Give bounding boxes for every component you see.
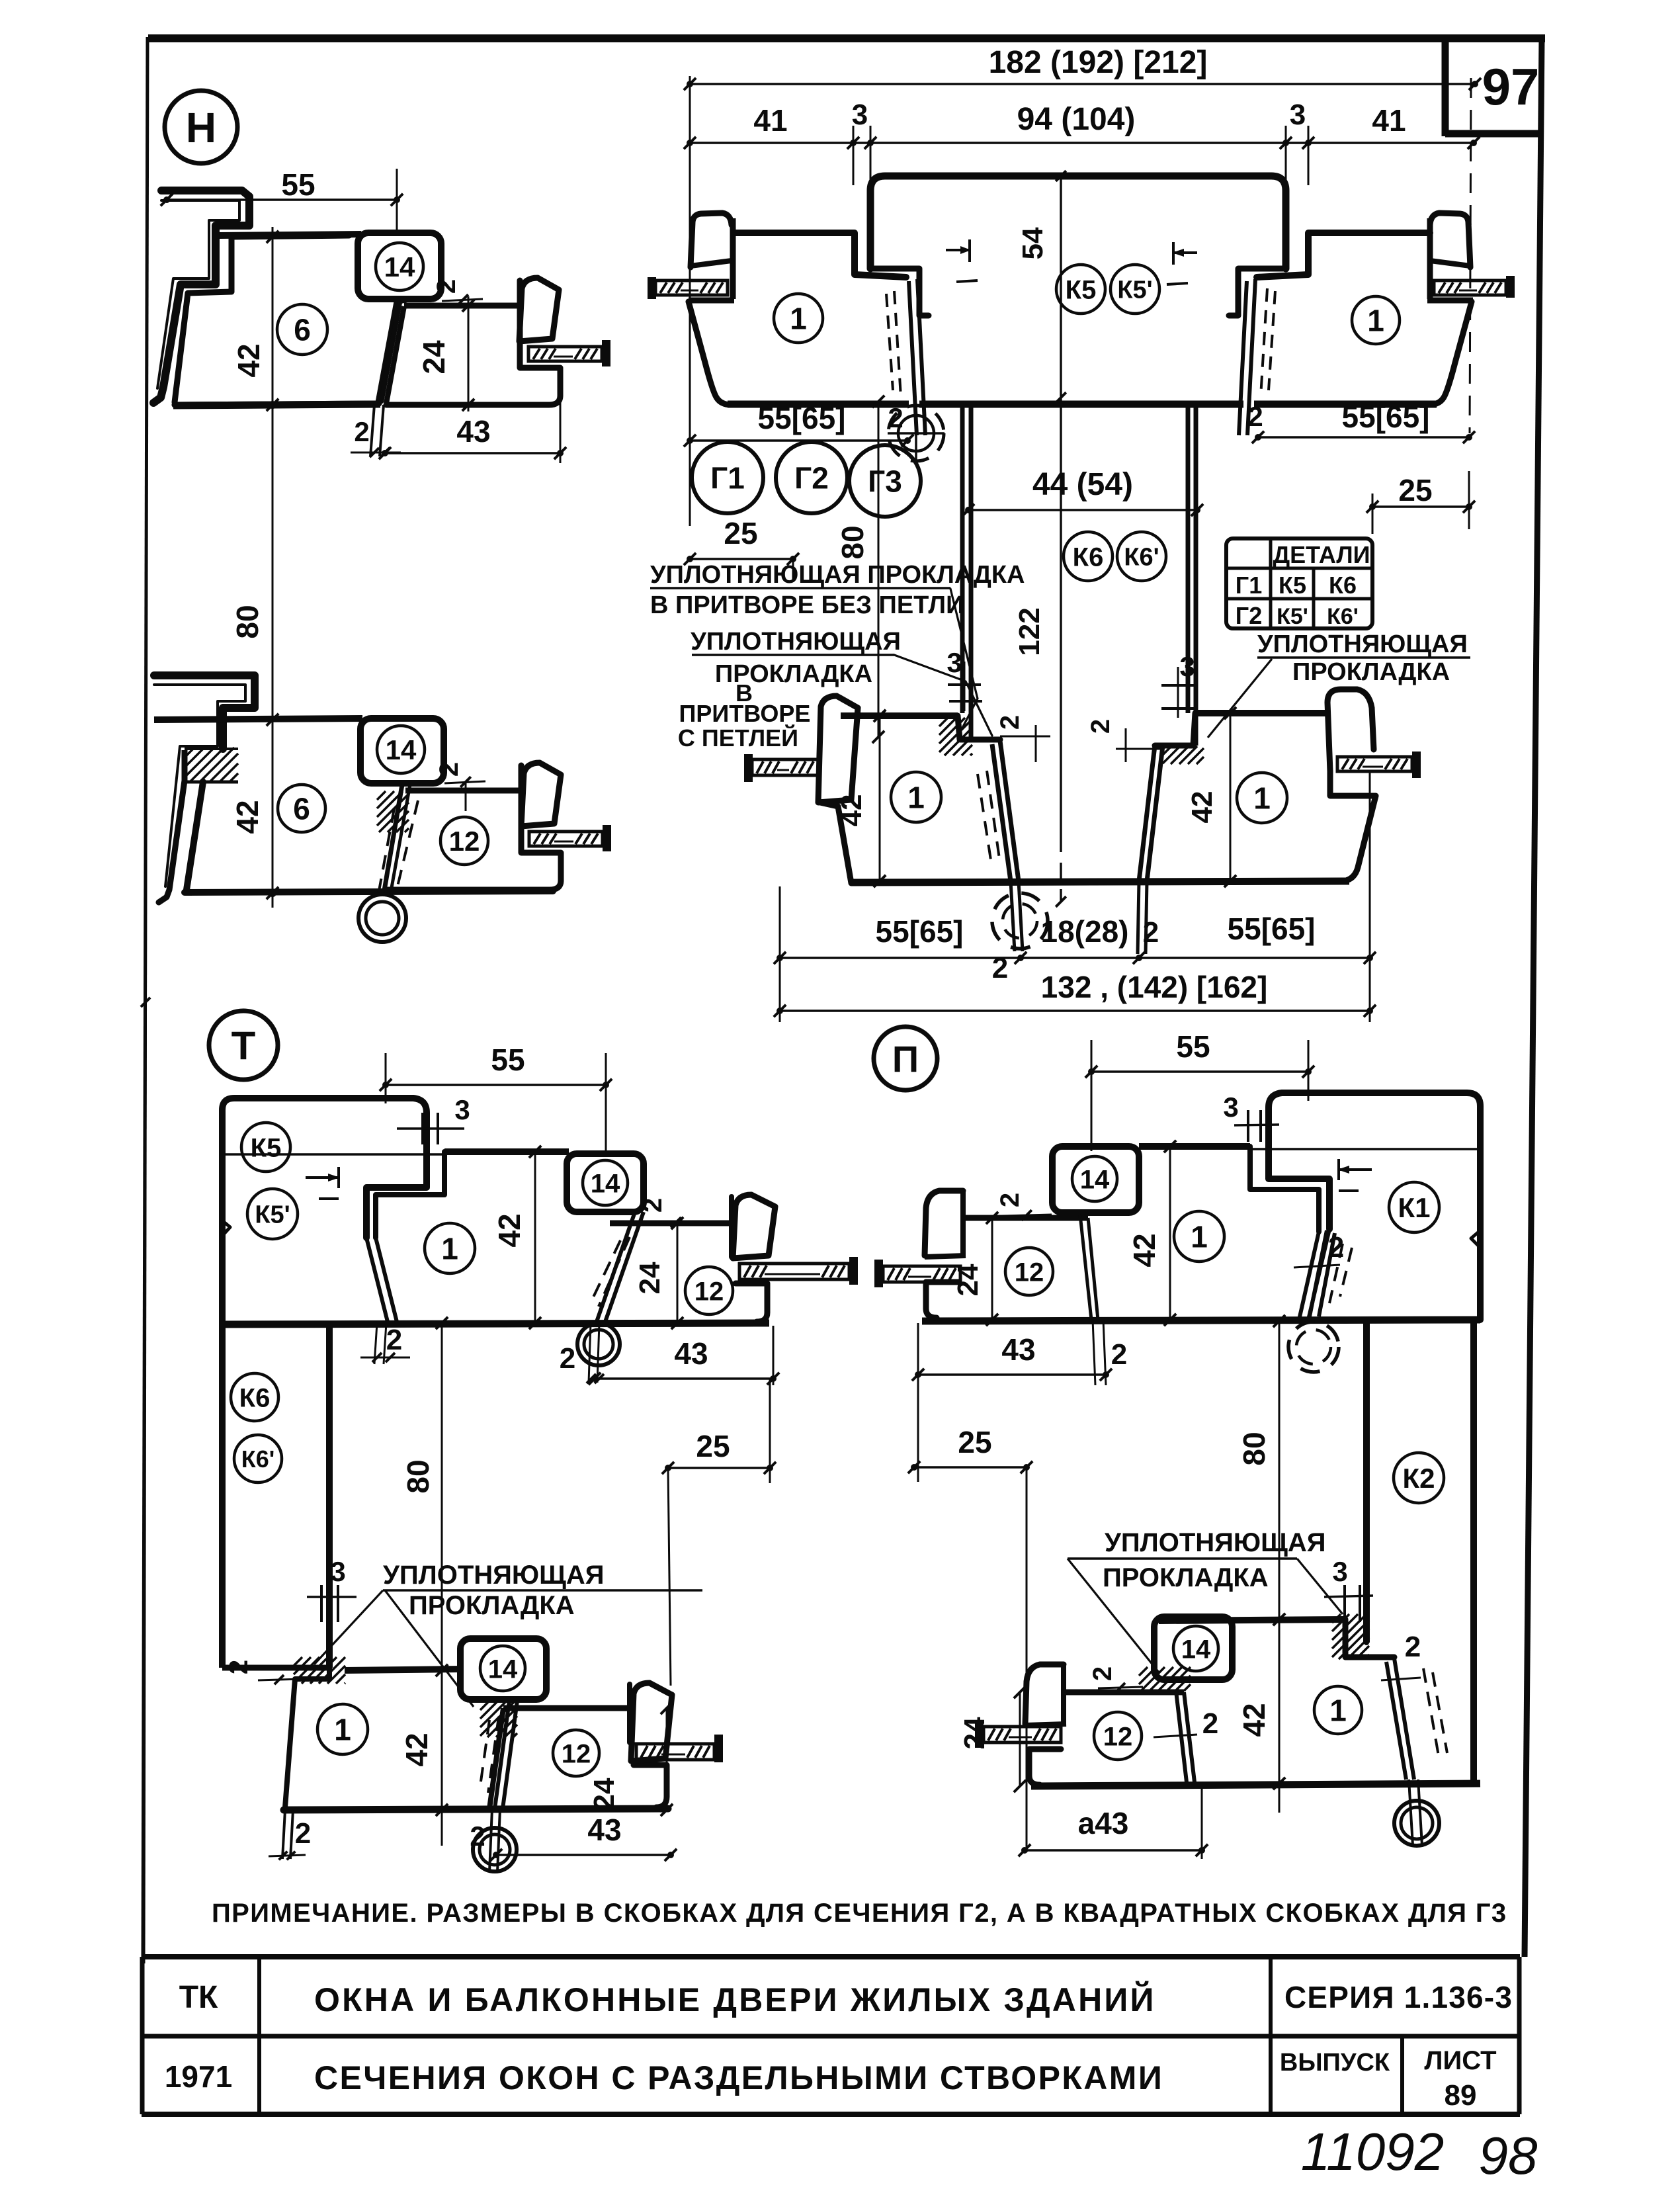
G right jamb screw [1506, 276, 1515, 298]
svg-text:Т: Т [231, 1024, 256, 1068]
G bottom right dim 42 [1230, 713, 1232, 881]
P gasket leaders [1068, 1559, 1159, 1672]
svg-text:3: 3 [1332, 1556, 1347, 1587]
svg-text:К6': К6' [1124, 544, 1159, 572]
G left jamb screw [648, 277, 656, 299]
P main bottom line [922, 1320, 1480, 1321]
P bottom hinge [1394, 1801, 1439, 1846]
svg-text:УПЛОТНЯЮЩАЯ: УПЛОТНЯЮЩАЯ [1257, 630, 1468, 658]
title block frame [142, 1954, 1520, 1959]
svg-text:2: 2 [1088, 1666, 1117, 1681]
T bottom frame 1 [345, 1669, 463, 1670]
G dim 55[65] right under frame [1258, 436, 1469, 438]
svg-text:12: 12 [449, 826, 480, 857]
svg-text:УПЛОТНЯЮЩАЯ: УПЛОТНЯЮЩАЯ [1105, 1528, 1326, 1557]
P seal hatch right [1332, 1614, 1341, 1623]
T slot to hinge [597, 1212, 635, 1322]
section label P [874, 1027, 937, 1090]
svg-text:42: 42 [230, 800, 265, 834]
svg-text:Г2: Г2 [794, 461, 829, 495]
G circle 1 left jamb [774, 294, 823, 343]
svg-text:12: 12 [1015, 1258, 1044, 1287]
T bottom hinge [473, 1828, 517, 1871]
G dim 25 right [1372, 505, 1469, 507]
svg-text:2: 2 [432, 279, 461, 294]
svg-text:2: 2 [1111, 1338, 1127, 1371]
G bottom right sash outline [1195, 710, 1329, 716]
H1 wall outer contour [153, 191, 249, 403]
svg-text:П: П [892, 1038, 919, 1080]
svg-text:2: 2 [995, 715, 1025, 730]
H1 frame profile 6 outline [175, 236, 409, 405]
svg-text:14: 14 [386, 734, 417, 765]
svg-text:Н: Н [186, 104, 216, 151]
G stoyka verticals [960, 402, 965, 713]
T frame 1 top thin line [225, 1153, 442, 1156]
T K5 K5' circles [241, 1123, 290, 1172]
svg-text:14: 14 [1181, 1635, 1211, 1664]
P bottom bead [1025, 1664, 1064, 1724]
G bottom right sash body [1330, 771, 1376, 881]
svg-text:2: 2 [1202, 1707, 1218, 1740]
svg-text:2: 2 [995, 1193, 1025, 1207]
svg-text:1: 1 [907, 781, 925, 815]
P K2 region [1363, 1321, 1370, 1643]
T dim 43 [595, 1377, 773, 1379]
P bottom slot right [1394, 1658, 1414, 1780]
svg-text:ПРИТВОРЕ: ПРИТВОРЕ [679, 700, 811, 727]
T bottom seal hatch right [480, 1701, 489, 1710]
P dim 24 [991, 1218, 993, 1320]
P box break mark [1471, 1230, 1480, 1248]
svg-text:2: 2 [888, 402, 903, 433]
svg-text:Г3: Г3 [868, 464, 902, 499]
svg-text:Г2: Г2 [1236, 602, 1262, 629]
G circles G1 G2 G3 [692, 442, 763, 513]
T bottom circle 12 [553, 1730, 599, 1776]
svg-text:42: 42 [399, 1733, 434, 1766]
T dim 55 [386, 1084, 606, 1086]
svg-text:12: 12 [694, 1277, 724, 1306]
svg-text:3: 3 [946, 647, 962, 678]
G head right step and tongue [1229, 269, 1286, 316]
svg-text:43: 43 [674, 1336, 708, 1371]
svg-text:25: 25 [958, 1425, 991, 1459]
svg-text:2: 2 [992, 952, 1008, 984]
H1 sash body right part [386, 280, 560, 405]
svg-text:К6: К6 [239, 1383, 271, 1412]
svg-text:К1: К1 [1398, 1192, 1431, 1223]
T bottom 2 slot left [282, 1810, 285, 1859]
svg-text:11092: 11092 [1301, 2122, 1445, 2181]
page top border [148, 34, 1545, 42]
H2 wall inner line [154, 685, 245, 886]
svg-text:К6: К6 [1329, 572, 1357, 599]
svg-text:55[65]: 55[65] [758, 401, 846, 435]
svg-text:1: 1 [1367, 304, 1384, 338]
H1 sash left edge and slot [386, 306, 404, 404]
svg-text:ТК: ТК [179, 1980, 218, 2015]
G bottom ext lines [779, 886, 781, 1022]
T bottom dim 42 [441, 1670, 443, 1810]
svg-text:42: 42 [492, 1213, 526, 1247]
G bottom left sash outline [841, 712, 958, 719]
G bottom left bead [818, 696, 858, 802]
P dim 42 [1169, 1146, 1171, 1320]
P circle 14 [1072, 1156, 1117, 1201]
T dim 24 [677, 1223, 679, 1323]
T one-mm mark [306, 1176, 339, 1179]
G center joint line [1060, 176, 1062, 836]
svg-text:Г1: Г1 [1236, 572, 1262, 599]
svg-text:3: 3 [454, 1094, 470, 1125]
H2 wall outer contour [154, 675, 255, 749]
svg-text:К2: К2 [1403, 1463, 1435, 1494]
P sash slot right [1088, 1218, 1098, 1320]
G sash head outline [870, 176, 1286, 269]
svg-text:1: 1 [1329, 1694, 1347, 1728]
G one-mm mark right [1173, 251, 1197, 254]
P one-mm mark [1339, 1168, 1372, 1171]
G hinge top (dashed) [888, 406, 944, 461]
T bottom gasket leaders [314, 1590, 383, 1664]
svg-text:2: 2 [1405, 1631, 1421, 1663]
svg-text:1: 1 [1253, 781, 1271, 816]
svg-text:СЕЧЕНИЯ ОКОН С РАЗДЕЛЬНЫМ: СЕЧЕНИЯ ОКОН С РАЗДЕЛЬНЫМИ СТВОРКАМИ [314, 2059, 1163, 2096]
leader to slot [894, 655, 992, 736]
G bottom right circle 1 [1237, 773, 1287, 823]
H1 dim 55 [167, 198, 397, 200]
P bottom dim 42 [1279, 1619, 1281, 1783]
P slot to hinge [1310, 1230, 1327, 1316]
svg-text:42: 42 [1237, 1703, 1271, 1737]
T frame 1 outline [376, 1152, 444, 1238]
G left jamb glazing bead [691, 213, 732, 267]
svg-text:К5': К5' [1277, 604, 1308, 629]
P frame 1 outline [1250, 1146, 1319, 1232]
svg-text:42: 42 [1127, 1233, 1161, 1267]
svg-text:2: 2 [560, 1342, 575, 1375]
P bottom frame 1 [1159, 1619, 1345, 1621]
svg-text:К5: К5 [1066, 275, 1097, 304]
H2 wall quarter hatch [185, 748, 194, 757]
T bottom platik 14 box [460, 1639, 546, 1699]
svg-text:2: 2 [638, 1198, 667, 1213]
H2 dim 42 on chain [267, 714, 278, 726]
H1 platik 14 box [358, 233, 441, 299]
P bottom circle 14 [1173, 1626, 1218, 1671]
T bottom screw [714, 1735, 723, 1762]
T sash screw [849, 1257, 858, 1285]
T bottom sash 12 [503, 1705, 630, 1711]
svg-text:14: 14 [384, 251, 415, 282]
H2 seal hatch at sash [377, 791, 386, 800]
P K1 circle [1389, 1182, 1439, 1232]
H1 circle 6 [277, 304, 327, 355]
svg-text:80: 80 [835, 525, 870, 559]
G bottom dim 132 [780, 1010, 1370, 1011]
svg-text:41: 41 [1372, 103, 1406, 138]
svg-text:98: 98 [1479, 2126, 1538, 2185]
P sash screw [874, 1260, 883, 1287]
svg-text:2: 2 [1247, 401, 1263, 432]
G K5 K5' circles [1056, 265, 1105, 314]
H2 circle 6 [278, 785, 325, 832]
P sash 12 [965, 1215, 1088, 1221]
svg-text:К5': К5' [255, 1201, 290, 1229]
svg-text:24: 24 [417, 340, 451, 374]
svg-text:55[65]: 55[65] [1228, 912, 1316, 946]
svg-text:122: 122 [1013, 607, 1046, 656]
P bottom circle 12 [1094, 1712, 1142, 1760]
svg-text:12: 12 [562, 1739, 591, 1768]
G dim 80 left [878, 402, 880, 737]
svg-text:1: 1 [441, 1232, 458, 1266]
T box bottom line [219, 1323, 769, 1324]
svg-text:ПРОКЛАДКА: ПРОКЛАДКА [1103, 1563, 1269, 1592]
P outer box K1 [1269, 1093, 1480, 1320]
H2 platik 14 box [360, 718, 444, 783]
svg-text:1: 1 [790, 302, 807, 336]
svg-text:42: 42 [231, 343, 266, 377]
P circle 1 [1174, 1211, 1224, 1262]
G bottom left circle 1 [891, 772, 941, 822]
P bottom screw [975, 1720, 984, 1748]
G dim 55[65] left under frame [690, 439, 907, 441]
H1 screw with head [602, 340, 610, 366]
G jamb frame 1 left [734, 233, 906, 277]
svg-text:К5': К5' [1117, 277, 1152, 304]
G dim line 41 3 94 3 41 [690, 142, 1474, 144]
svg-text:94 (104): 94 (104) [1017, 102, 1136, 137]
svg-text:2: 2 [435, 762, 464, 777]
svg-text:24: 24 [634, 1262, 666, 1294]
svg-text:ДЕТАЛИ: ДЕТАЛИ [1273, 541, 1370, 568]
T platik 14 box [567, 1154, 644, 1212]
details table [1226, 538, 1372, 628]
G one-mm mark left [946, 249, 970, 251]
svg-text:УПЛОТНЯЮЩАЯ: УПЛОТНЯЮЩАЯ [383, 1561, 605, 1590]
T circle 1 [425, 1223, 475, 1273]
T bottom seal hatch left [294, 1657, 302, 1666]
svg-text:ВЫПУСК: ВЫПУСК [1280, 2049, 1390, 2077]
svg-text:В ПРИТВОРЕ БЕЗ ПЕТЛИ: В ПРИТВОРЕ БЕЗ ПЕТЛИ [650, 591, 964, 619]
svg-text:1: 1 [334, 1713, 351, 1747]
H2 circle 12 [441, 817, 488, 865]
H1 dim 43 [385, 452, 560, 454]
svg-text:24: 24 [958, 1717, 991, 1749]
svg-text:55: 55 [281, 167, 315, 202]
T sash bead [733, 1195, 775, 1258]
svg-text:2: 2 [295, 1817, 311, 1850]
T circle 14 [583, 1160, 628, 1205]
svg-text:2: 2 [224, 1660, 253, 1674]
H1 dim 42-80 chain line [272, 227, 274, 720]
T hinge ring [577, 1323, 620, 1365]
svg-text:25: 25 [696, 1429, 730, 1463]
P bottom dim a43 [1025, 1849, 1202, 1851]
svg-text:89: 89 [1445, 2079, 1477, 2112]
svg-text:6: 6 [294, 313, 311, 347]
svg-text:а43: а43 [1078, 1806, 1129, 1840]
T bottom slot to hinge [495, 1701, 509, 1809]
sheet number box 97 [1442, 38, 1449, 136]
svg-text:С ПЕТЛЕЙ: С ПЕТЛЕЙ [678, 724, 798, 752]
T circle 12 [685, 1267, 733, 1314]
svg-text:80: 80 [401, 1459, 435, 1493]
G dim 44 (54) [968, 509, 1197, 511]
svg-text:ПРОКЛАДКА: ПРОКЛАДКА [409, 1591, 575, 1620]
svg-text:2: 2 [354, 416, 369, 447]
H2 frame right edge [392, 785, 410, 888]
P hinge ring dashed [1288, 1322, 1339, 1372]
G bottom right screw [1412, 752, 1421, 778]
svg-text:УПЛОТНЯЮЩАЯ ПРОКЛАДКА: УПЛОТНЯЮЩАЯ ПРОКЛАДКА [650, 561, 1025, 589]
leader to left seal [950, 589, 978, 732]
svg-text:2: 2 [1328, 1231, 1344, 1264]
svg-text:Г1: Г1 [710, 461, 745, 495]
svg-text:1: 1 [1191, 1220, 1208, 1254]
H1 glazing bead [519, 278, 559, 341]
svg-text:2: 2 [386, 1324, 402, 1356]
svg-text:24: 24 [588, 1778, 620, 1810]
svg-text:14: 14 [591, 1169, 620, 1198]
T K6 box [219, 1323, 226, 1668]
H1 circle 14 [376, 243, 423, 290]
H2 sash 12 top edge [405, 788, 521, 794]
svg-text:55: 55 [491, 1043, 525, 1077]
G bottom left screw [744, 754, 753, 782]
P platik 14 box [1052, 1146, 1139, 1213]
H2 frame 6 outline [154, 718, 362, 720]
H1 sash 12 top edge [404, 303, 520, 309]
G bottom left slot to hinge [1000, 741, 1019, 881]
T dim 80 line [441, 1323, 443, 1670]
T bottom bead [631, 1683, 672, 1761]
P dim 55 [1091, 1070, 1308, 1072]
T dim 42 [534, 1152, 536, 1323]
T frame sash slot bottom [366, 1238, 388, 1322]
H2 screw with head [603, 825, 611, 851]
P K2 circle [1394, 1453, 1444, 1503]
P bottom frame bottom edge [1031, 1783, 1480, 1786]
svg-text:3: 3 [330, 1556, 345, 1587]
svg-text:97: 97 [1482, 58, 1540, 116]
svg-text:3: 3 [1223, 1092, 1238, 1123]
G right extension line [1470, 78, 1471, 433]
P bottom dim 24 [1019, 1692, 1021, 1786]
svg-text:К5: К5 [251, 1133, 282, 1162]
T dim 25 [668, 1467, 770, 1469]
P bottom circle 1 [1314, 1686, 1362, 1734]
svg-text:К5: К5 [1279, 572, 1306, 599]
G ext lines for 3-gaps [853, 126, 855, 185]
svg-text:6: 6 [293, 792, 310, 826]
page right border [1525, 38, 1542, 1957]
G K6 K6' circles [1064, 532, 1113, 581]
svg-text:К6': К6' [241, 1445, 275, 1473]
svg-text:ПРОКЛАДКА: ПРОКЛАДКА [1292, 658, 1450, 686]
section label H [165, 91, 237, 163]
P sash bead [925, 1191, 963, 1256]
svg-text:43: 43 [1001, 1332, 1035, 1367]
svg-text:2: 2 [1086, 719, 1115, 734]
H1 sash bottom gap lines [370, 405, 374, 456]
G jamb frame 1 right [1257, 233, 1430, 277]
svg-text:80: 80 [230, 605, 265, 638]
svg-text:43: 43 [587, 1813, 621, 1847]
H1 wall inner line [157, 200, 239, 388]
svg-text:УПЛОТНЯЮЩАЯ: УПЛОТНЯЮЩАЯ [691, 628, 901, 656]
T bottom circle 14 [480, 1646, 525, 1691]
svg-text:3: 3 [1290, 99, 1306, 131]
svg-text:ПРИМЕЧАНИЕ. РАЗМЕРЫ В СКОБК: ПРИМЕЧАНИЕ. РАЗМЕРЫ В СКОБКАХ ДЛЯ СЕЧЕНИ… [212, 1899, 1507, 1928]
T bottom dim 24 [666, 1708, 668, 1810]
svg-text:25: 25 [1398, 473, 1432, 507]
H2 sash slot lines to hinge [384, 785, 402, 894]
G left sash stile slot [909, 281, 917, 435]
svg-text:43: 43 [456, 414, 490, 449]
P dim 80 [1279, 1321, 1281, 1619]
T sash 12 [610, 1221, 732, 1226]
G left extension line [689, 76, 691, 526]
H1 frame bottom edge [173, 404, 380, 406]
svg-text:54: 54 [1017, 227, 1049, 259]
H2 sash body right part [387, 765, 561, 890]
G bottom left seal hatch [939, 718, 948, 726]
H2 glazing bead [521, 763, 561, 826]
svg-text:3: 3 [1179, 651, 1195, 682]
svg-text:41: 41 [753, 103, 787, 138]
G bottom right bead [1327, 689, 1374, 771]
svg-text:42: 42 [835, 795, 868, 827]
G dim 182 (192) [212] [690, 83, 1475, 85]
page left border [143, 37, 147, 1957]
P frame 1 thin top line [1250, 1148, 1478, 1150]
svg-text:18(28): 18(28) [1041, 914, 1129, 949]
P circle 12 [1005, 1248, 1053, 1295]
T K6 K6' circles [231, 1373, 278, 1421]
svg-text:80: 80 [1237, 1432, 1271, 1465]
H1 frame top edge [218, 234, 361, 236]
svg-text:132 , (142) [162]: 132 , (142) [162] [1041, 970, 1268, 1004]
svg-text:ОКНА И БАЛКОННЫЕ ДВЕРИ ЖИЛ: ОКНА И БАЛКОННЫЕ ДВЕРИ ЖИЛЫХ ЗДАНИЙ [314, 1981, 1156, 2018]
G bottom hinge dashed [992, 893, 1048, 949]
svg-text:1971: 1971 [165, 2059, 232, 2094]
svg-text:2: 2 [1143, 916, 1159, 949]
svg-text:42: 42 [1186, 791, 1218, 824]
T box left break mark [222, 1221, 230, 1236]
G right sash stile slot [1247, 279, 1255, 435]
svg-text:2: 2 [470, 1821, 485, 1852]
G bottom left dim 42 [879, 716, 881, 881]
svg-text:55: 55 [1176, 1029, 1210, 1064]
T bottom dim 43 [496, 1854, 671, 1856]
T outer box K5 [222, 1098, 427, 1323]
P bottom sash 12 [1066, 1690, 1184, 1696]
G right jamb glazing bead [1430, 213, 1470, 267]
G bottom right seal hatch [1163, 746, 1171, 755]
svg-text:44 (54): 44 (54) [1032, 467, 1133, 502]
section label T [209, 1011, 278, 1080]
P frame box slot bottom [1308, 1229, 1329, 1320]
G dim 25 left [690, 558, 793, 560]
T bottom circle 1 [317, 1704, 368, 1754]
P dim 25 [914, 1466, 1027, 1468]
H1 dim 24 [468, 296, 470, 411]
svg-text:12: 12 [1103, 1722, 1133, 1751]
svg-text:55[65]: 55[65] [876, 914, 964, 949]
